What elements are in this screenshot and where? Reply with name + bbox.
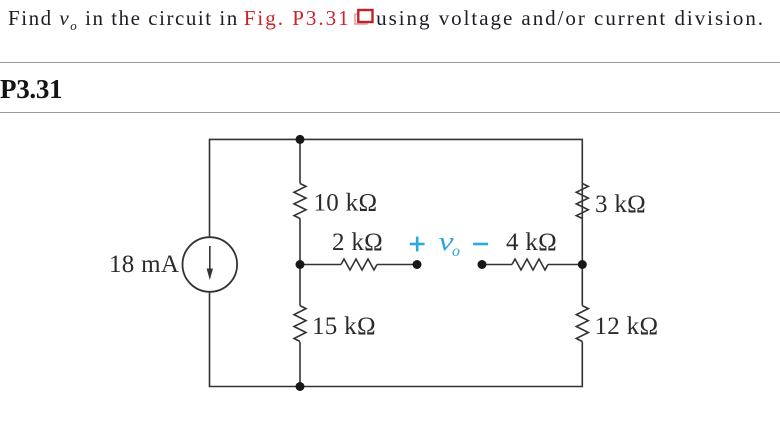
svg-text:2 kΩ: 2 kΩ: [332, 229, 383, 256]
svg-text:4 kΩ: 4 kΩ: [506, 229, 557, 256]
svg-text:15 kΩ: 15 kΩ: [312, 313, 376, 340]
svg-text:18 mA: 18 mA: [109, 251, 179, 278]
svg-text:3 kΩ: 3 kΩ: [595, 191, 646, 218]
svg-text:o: o: [452, 243, 460, 260]
svg-text:10 kΩ: 10 kΩ: [314, 190, 378, 217]
svg-text:12 kΩ: 12 kΩ: [595, 313, 659, 340]
